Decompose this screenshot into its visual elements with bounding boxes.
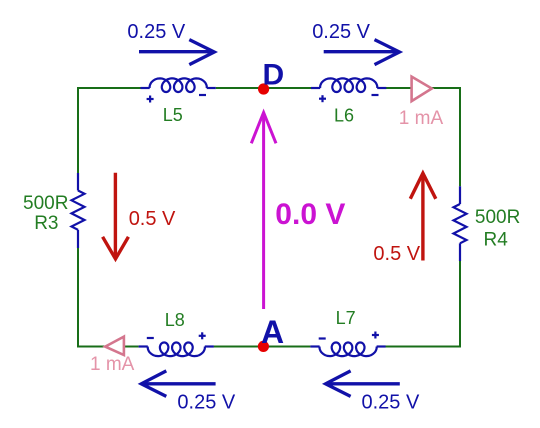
svg-text:1 mA: 1 mA [90,354,135,375]
L6 minus sign [372,94,379,96]
current direction marker (top right), 1 mA [412,77,432,102]
svg-text:R4: R4 [484,230,509,251]
svg-text:R3: R3 [34,213,58,234]
svg-text:0.5 V: 0.5 V [373,243,420,265]
voltmeter arrow A to D (magenta) [251,113,276,310]
voltage arrow bottom-left (L8) [141,371,215,397]
node A junction dot [258,341,269,352]
inductor L5 [141,78,216,92]
inductor L8 [139,343,214,357]
svg-text:500R: 500R [23,193,68,214]
L5 plus sign [147,96,154,103]
svg-text:D: D [263,59,285,92]
resistor R3 [72,173,85,248]
wire bottom-right segment [385,346,460,348]
wire top-left segment [78,87,141,89]
inductor L7 [310,343,385,357]
L6 plus sign [319,95,326,102]
svg-text:0.5 V: 0.5 V [129,208,176,230]
wire right side upper [459,87,461,186]
voltage arrow top-right (L6) [324,40,400,65]
L5 minus sign [199,94,206,96]
svg-text:L5: L5 [163,105,183,125]
voltage arrow top-left (L5) [139,40,214,65]
svg-text:L8: L8 [165,310,185,330]
svg-text:A: A [261,314,284,350]
voltage arrow bottom-right (L7) [326,371,400,397]
wire right side lower [459,261,461,348]
svg-text:0.25 V: 0.25 V [312,21,370,43]
wire bottom-left segment [78,346,139,348]
svg-text:0.0 V: 0.0 V [275,198,345,231]
L8 minus sign [147,337,154,339]
voltage arrow R3 (down) [103,173,129,259]
svg-text:0.25 V: 0.25 V [127,21,185,43]
svg-text:500R: 500R [475,207,520,228]
inductor L6 [311,78,386,92]
svg-text:0.25 V: 0.25 V [362,392,420,414]
svg-text:1 mA: 1 mA [399,108,444,129]
L8 plus sign [199,332,206,339]
wire top-middle segment (through node D) [216,87,311,89]
svg-text:L6: L6 [334,106,354,126]
svg-text:L7: L7 [336,308,356,328]
wire top-right segment [386,87,460,89]
voltage arrow R4 (up) [410,173,436,260]
wire left side upper [77,87,79,173]
wire bottom-middle segment (through node A) [214,346,311,348]
svg-text:0.25 V: 0.25 V [177,392,235,414]
resistor R4 [454,186,467,261]
L7 minus sign [319,337,326,339]
current direction marker (bottom left), 1 mA [105,337,124,355]
node D junction dot [258,83,269,94]
wire left side lower [77,248,79,348]
L7 plus sign [372,332,379,339]
